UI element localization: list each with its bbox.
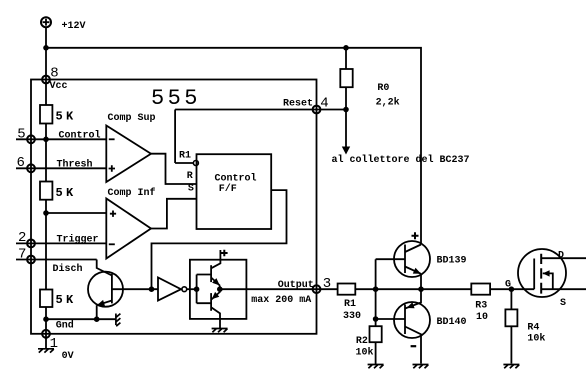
svg-text:R1: R1 [344,299,356,310]
svg-text:6: 6 [17,155,25,171]
svg-text:Control: Control [59,130,101,142]
svg-text:Reset: Reset [283,99,313,110]
svg-text:Comp Sup: Comp Sup [108,113,156,124]
svg-text:R1: R1 [179,151,191,162]
svg-text:10k: 10k [356,346,374,358]
svg-text:Gnd: Gnd [56,319,74,331]
svg-text:max 200 mA: max 200 mA [251,295,311,306]
svg-text:Disch: Disch [53,263,83,275]
svg-text:Thresh: Thresh [57,159,93,171]
svg-text:0V: 0V [62,351,74,362]
svg-text:10: 10 [476,312,488,323]
svg-text:7: 7 [18,246,26,262]
svg-text:R3: R3 [475,301,487,312]
svg-text:BD140: BD140 [437,317,467,328]
svg-text:BD139: BD139 [437,256,467,267]
svg-text:Comp Inf: Comp Inf [108,187,156,199]
svg-text:Control: Control [215,173,257,185]
svg-text:1: 1 [50,336,58,352]
svg-text:R0: R0 [377,83,389,94]
svg-text:S: S [560,298,566,309]
svg-text:G: G [505,280,511,291]
svg-text:10k: 10k [527,332,545,344]
svg-text:+12V: +12V [62,21,86,32]
svg-text:2,2k: 2,2k [376,97,400,109]
svg-text:Trigger: Trigger [57,233,99,245]
svg-text:5: 5 [17,126,25,142]
svg-text:Output: Output [278,280,314,291]
svg-text:2: 2 [18,230,26,246]
svg-text:5K: 5K [56,293,77,307]
svg-text:5K: 5K [56,186,77,200]
svg-text:3: 3 [323,276,331,292]
svg-text:5K: 5K [56,110,77,124]
svg-text:330: 330 [343,311,361,322]
svg-text:4: 4 [320,96,328,112]
svg-text:8: 8 [50,65,58,81]
svg-text:F/F: F/F [219,183,237,195]
svg-text:S: S [188,184,194,195]
svg-text:al collettore del BC237: al collettore del BC237 [332,154,470,166]
svg-text:Vcc: Vcc [50,81,68,92]
svg-text:R2: R2 [356,336,368,347]
svg-text:D: D [558,250,564,261]
svg-text:555: 555 [151,86,201,111]
svg-text:R: R [187,171,193,182]
svg-text:R4: R4 [527,323,539,334]
